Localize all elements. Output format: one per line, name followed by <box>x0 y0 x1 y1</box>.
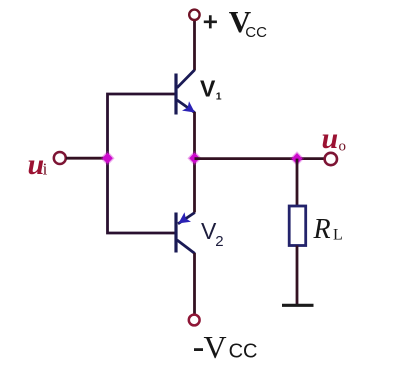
resistor RL <box>289 206 306 246</box>
terminal input <box>54 152 66 164</box>
svg-text:V: V <box>200 76 216 102</box>
node output junction <box>187 151 201 166</box>
arrow V2 emitter <box>178 212 191 223</box>
svg-text:o: o <box>339 139 347 155</box>
node load junction <box>290 151 304 166</box>
transistor V1 <box>176 70 195 115</box>
svg-text:R: R <box>313 214 331 245</box>
arrow V1 emitter <box>182 101 195 112</box>
wire base branch <box>108 94 175 233</box>
ground <box>282 304 314 307</box>
svg-text:u: u <box>322 122 339 155</box>
svg-text:V: V <box>204 329 227 365</box>
label -Vcc <box>194 329 257 365</box>
svg-text:1: 1 <box>216 91 222 103</box>
label V1 <box>200 76 222 103</box>
wire V2 collector to -Vcc <box>193 253 196 314</box>
svg-text:2: 2 <box>215 233 223 250</box>
wire output node to V2 emitter <box>193 158 196 213</box>
label RL <box>313 214 343 245</box>
terminal -Vcc <box>189 315 200 326</box>
wire load junction to RL <box>296 159 299 206</box>
svg-text:CC: CC <box>229 340 258 362</box>
wire V1 emitter to output node <box>193 112 196 158</box>
terminal output <box>325 153 337 165</box>
label uo <box>322 122 347 155</box>
label ui <box>28 148 48 181</box>
svg-text:i: i <box>43 160 48 179</box>
node A <box>100 151 114 166</box>
label +Vcc <box>204 4 267 41</box>
wire RL to ground <box>296 246 299 305</box>
transistor V2 <box>176 213 195 254</box>
terminal +Vcc <box>189 10 199 20</box>
svg-text:CC: CC <box>245 24 267 41</box>
wire output line <box>195 157 325 160</box>
label V2 <box>201 218 224 250</box>
wire input to node A <box>66 157 105 160</box>
wire +Vcc stem to V1 collector <box>193 21 196 71</box>
svg-text:L: L <box>333 227 343 244</box>
